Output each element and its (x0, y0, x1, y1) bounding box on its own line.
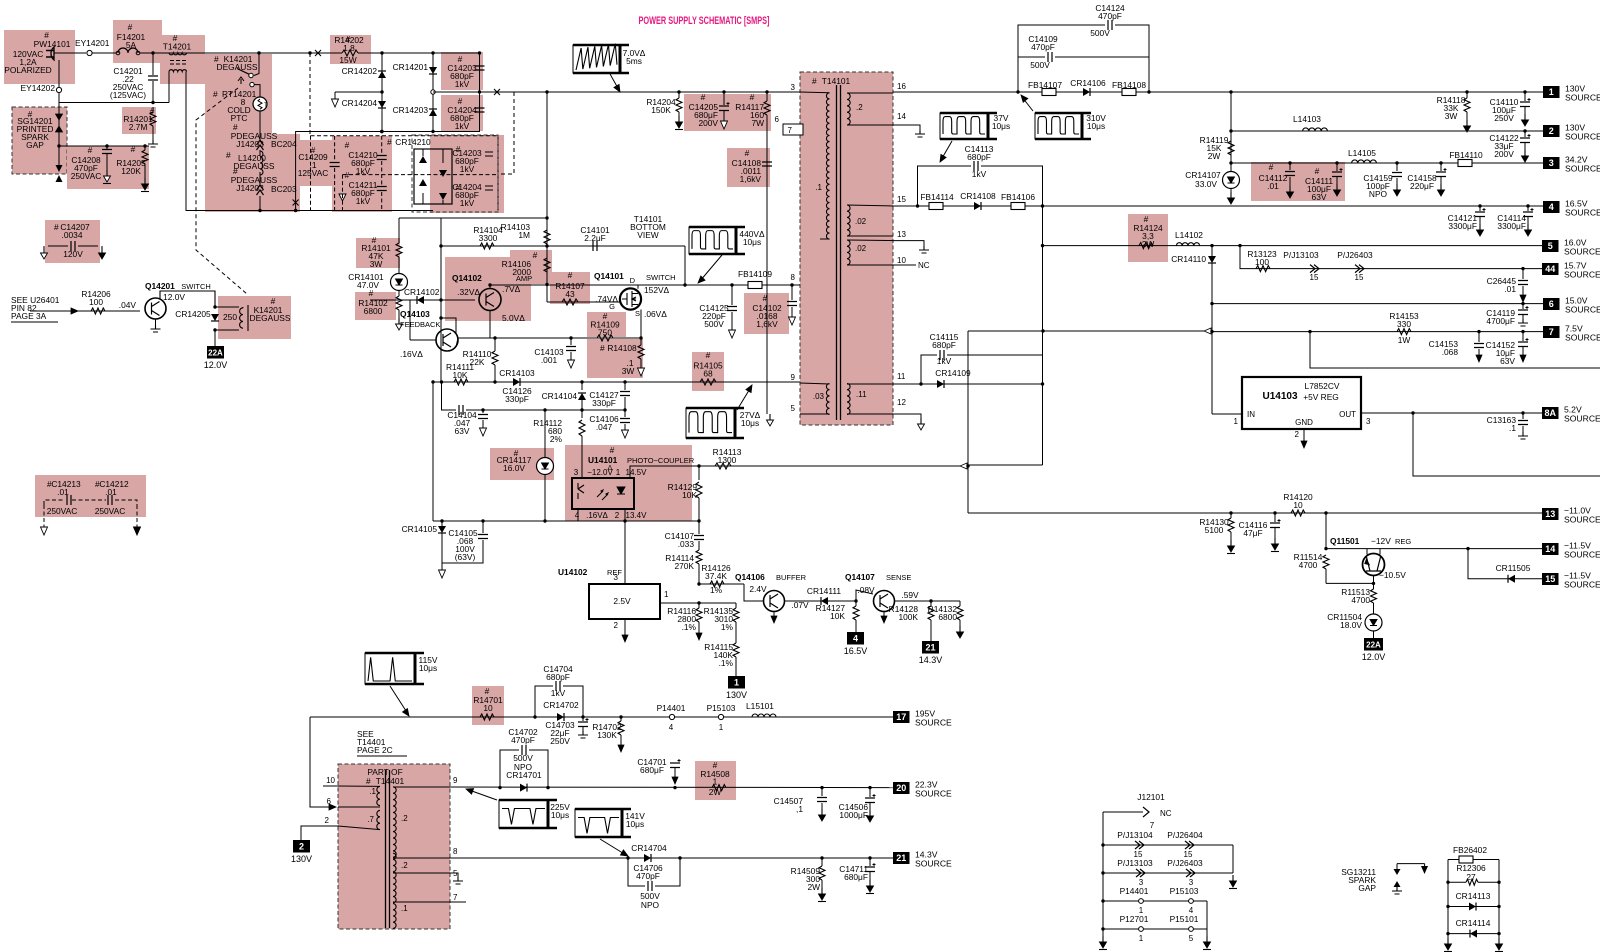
svg-text:5: 5 (1189, 934, 1194, 943)
wire plug to EY14201 (54, 52, 86, 54)
svg-text:CR14114: CR14114 (1456, 918, 1491, 928)
diode CR14106 (1083, 88, 1090, 96)
arrow 37V to loop (941, 141, 952, 160)
dashed box outer (311, 136, 499, 211)
svg-text:FB26402: FB26402 (1453, 845, 1487, 855)
terminal source 21 (893, 852, 910, 864)
capacitor C14201 (152, 53, 154, 75)
wire base Q14201 (30, 310, 140, 312)
svg-text:.04V: .04V (119, 300, 137, 310)
svg-text:#: # (745, 148, 750, 158)
svg-text:6: 6 (775, 115, 780, 124)
waveform 27V (686, 408, 735, 438)
svg-text:.068: .068 (1442, 347, 1459, 357)
svg-text:3: 3 (1549, 158, 1554, 168)
svg-text:2: 2 (325, 816, 330, 825)
wire x433 down to photocoupler line (432, 382, 434, 521)
wire Q14103 base (410, 339, 436, 341)
svg-text:.01: .01 (105, 487, 117, 497)
svg-text:44: 44 (1545, 264, 1555, 274)
terminal 4 (847, 632, 864, 645)
T14401 winding .7 left (377, 810, 380, 829)
svg-text:21: 21 (896, 853, 906, 863)
connector P/J13103 (1310, 265, 1319, 273)
svg-text:U14101: U14101 (588, 455, 618, 465)
terminal 2 (293, 840, 310, 853)
wire (529, 750, 548, 788)
wire L14200 to BC203 (259, 172, 261, 185)
svg-text:7: 7 (1150, 821, 1155, 830)
wire (918, 166, 972, 206)
arrow from 440V wavebox (700, 255, 722, 281)
rail source 2 (1231, 130, 1543, 132)
highlight degauss column upper (205, 54, 272, 134)
svg-text:SOURCE: SOURCE (1564, 414, 1600, 424)
PTC thermistor RT14201 (253, 97, 267, 111)
wire (968, 464, 1043, 466)
highlight C14108 (727, 148, 770, 187)
inductor L14102 (1176, 243, 1199, 246)
svg-text:250VAC: 250VAC (47, 506, 78, 516)
highlight R14109 (587, 312, 626, 337)
highlight T14401 (338, 764, 450, 929)
wire EY14201 to fuse (92, 52, 116, 54)
svg-text:EY14201: EY14201 (75, 38, 110, 48)
svg-text:CR14102: CR14102 (404, 287, 440, 297)
svg-text:1kV: 1kV (551, 688, 566, 698)
wire below junction (58, 146, 60, 166)
highlight Q14102 (445, 257, 531, 321)
terminal source 3 (1543, 157, 1560, 169)
ferrite bead FB14107 (1042, 89, 1056, 96)
svg-text:1: 1 (1234, 417, 1239, 426)
svg-text:.033: .033 (678, 539, 695, 549)
svg-text:10: 10 (897, 256, 906, 265)
svg-text:330: 330 (1397, 319, 1411, 329)
svg-text:Q14107: Q14107 (845, 572, 875, 582)
svg-text:63V: 63V (455, 426, 470, 436)
rail -11.5V source 14 (1326, 548, 1543, 550)
svg-text:CR14104: CR14104 (542, 391, 578, 401)
svg-text:.047: .047 (596, 422, 613, 432)
wire (254, 53, 259, 76)
svg-text:#: # (345, 140, 350, 150)
highlight T14101 (800, 72, 893, 425)
svg-text:1kV: 1kV (937, 356, 952, 366)
svg-text:4: 4 (575, 511, 580, 520)
inductor L14105 (1352, 160, 1377, 163)
svg-text:680pF: 680pF (967, 152, 991, 162)
wire (921, 355, 937, 384)
wire (393, 872, 450, 874)
svg-text:(125VAC): (125VAC) (110, 90, 146, 100)
node (380, 130, 383, 133)
wire (393, 901, 466, 903)
svg-text:#: # (213, 89, 218, 99)
svg-text:680pF: 680pF (546, 672, 570, 682)
mosfet Q14101 (620, 288, 641, 309)
rail 5.2V source 8A (1361, 412, 1543, 414)
waveform 115V (365, 653, 415, 684)
transformer T14401 core (385, 770, 387, 928)
transistor Q14102 (479, 289, 501, 311)
svg-text:T14101: T14101 (822, 76, 851, 86)
node (151, 101, 154, 104)
svg-text:250VAC: 250VAC (71, 171, 102, 181)
arrow 27V wavebox (737, 387, 751, 410)
svg-text:1,6kV: 1,6kV (740, 174, 762, 184)
svg-text:12.0V: 12.0V (163, 292, 185, 302)
svg-text:CR14103: CR14103 (499, 368, 535, 378)
waveform 225V (499, 800, 548, 828)
svg-text:8: 8 (453, 847, 458, 856)
svg-text:PAGE 3A: PAGE 3A (11, 311, 47, 321)
resistor R14126 (710, 581, 724, 587)
terminal source 8A (1542, 407, 1559, 419)
wire pin2 photocoupler (624, 509, 626, 521)
highlight R14106 (510, 250, 552, 284)
ground C14106 (622, 430, 629, 438)
wire (1397, 863, 1425, 865)
svg-text:FB14114: FB14114 (920, 192, 954, 202)
svg-text:#: # (701, 92, 706, 102)
svg-text:8: 8 (791, 273, 796, 282)
svg-text:100: 100 (1255, 257, 1269, 267)
svg-text:470pF: 470pF (1031, 42, 1055, 52)
eyelet EY14201 (87, 50, 92, 55)
node switch feed (257, 51, 260, 54)
eyelet P14401 (669, 714, 674, 719)
highlight C14203 (441, 52, 483, 90)
wire (655, 858, 680, 886)
svg-text:.16VΔ: .16VΔ (586, 511, 608, 520)
svg-text:330pF: 330pF (505, 394, 529, 404)
wire x410 (409, 300, 411, 340)
dashed link right (498, 92, 514, 174)
svg-text:BC204: BC204 (271, 139, 297, 149)
wire Q14102 collector (489, 285, 491, 289)
svg-text:17: 17 (896, 712, 906, 722)
svg-text:220μF: 220μF (1410, 181, 1434, 191)
svg-text:P15103: P15103 (1170, 886, 1199, 896)
svg-text:FB14110: FB14110 (1449, 150, 1483, 160)
svg-text:1kV: 1kV (972, 169, 987, 179)
highlight U14101 (565, 445, 692, 521)
svg-text:1%: 1% (721, 622, 734, 632)
svg-text:5100: 5100 (1205, 525, 1224, 535)
ferrite bead FB14114 (929, 203, 943, 210)
svg-text:.07V: .07V (791, 600, 809, 610)
wire (1413, 413, 1600, 476)
diode CR14701 (520, 784, 527, 792)
wire (466, 409, 625, 411)
resistor R14104 (480, 243, 494, 249)
highlight C14210 C14211 (332, 136, 392, 212)
svg-text:#: # (600, 343, 605, 353)
svg-text:10μs: 10μs (741, 418, 759, 428)
svg-text:P/J26403: P/J26403 (1337, 250, 1373, 260)
capacitor C14204 (475, 108, 485, 112)
degauss coil L14200 (260, 151, 263, 175)
svg-text:13.4V: 13.4V (626, 511, 648, 520)
waveform 141V (575, 809, 622, 837)
resistor R14120 (1291, 510, 1305, 516)
svg-text:250: 250 (223, 312, 237, 322)
svg-text:.11: .11 (856, 390, 867, 399)
wire (856, 590, 873, 601)
wire EY14202 down (58, 93, 60, 147)
svg-text:CR14701: CR14701 (506, 770, 542, 780)
svg-text:1M: 1M (518, 230, 530, 240)
svg-text:.59V: .59V (901, 590, 919, 600)
svg-text:RT14201: RT14201 (222, 89, 257, 99)
svg-text:T14401: T14401 (376, 776, 405, 786)
highlight F14201 (113, 20, 162, 63)
wire main rail vertical x547 (546, 92, 548, 302)
svg-text:#: # (763, 293, 768, 303)
svg-text:470pF: 470pF (636, 871, 660, 881)
svg-text:9: 9 (453, 776, 458, 785)
svg-text:14.5V: 14.5V (626, 468, 648, 477)
svg-text:.2: .2 (401, 814, 408, 823)
svg-text:3W: 3W (1445, 111, 1458, 121)
wire pin 6 (338, 806, 380, 808)
svg-text:SOURCE: SOURCE (1565, 93, 1600, 103)
svg-text:4700: 4700 (1299, 560, 1318, 570)
svg-text:SOURCE: SOURCE (1564, 580, 1600, 590)
spark electrodes lower (56, 165, 63, 182)
resistor R14206 (91, 308, 105, 314)
wire BC203 to bottom (259, 196, 261, 211)
wire Q14107 emitter (883, 612, 885, 617)
wire C14201 down (152, 81, 154, 103)
wire node x968 (967, 331, 969, 513)
svg-text:13: 13 (897, 230, 906, 239)
svg-text:.02: .02 (855, 244, 867, 253)
svg-text:1300: 1300 (718, 455, 737, 465)
svg-text:10μs: 10μs (551, 810, 569, 820)
svg-text:PAGE 2C: PAGE 2C (357, 745, 393, 755)
ladder verticals (1447, 860, 1449, 939)
terminal source 1 (1543, 86, 1560, 98)
highlight degauss column lower (205, 134, 300, 212)
svg-text:500V: 500V (1030, 60, 1050, 70)
svg-text:SOURCE: SOURCE (1565, 333, 1600, 343)
highlight R14124 (1128, 214, 1168, 262)
svg-text:#: # (387, 137, 392, 147)
eyelet P15103 (718, 714, 723, 719)
svg-text:CR14210: CR14210 (395, 137, 431, 147)
transformer T14101 core (836, 85, 838, 420)
svg-text:SOURCE: SOURCE (1565, 132, 1600, 142)
svg-text:Q14102: Q14102 (452, 273, 482, 283)
wire (628, 858, 645, 886)
wire to C14208 R14205 (59, 145, 149, 147)
svg-text:150K: 150K (651, 105, 671, 115)
diode CR11505 (1508, 575, 1515, 583)
node (143, 144, 146, 147)
svg-text:Q14101: Q14101 (594, 271, 624, 281)
svg-text:1W: 1W (1398, 335, 1411, 345)
wire (1115, 25, 1149, 92)
svg-text:100K: 100K (898, 612, 918, 622)
node collector (488, 283, 491, 286)
terminal 1 (728, 676, 745, 689)
rail pin 9 source 20 (450, 786, 893, 789)
svg-text:14: 14 (897, 112, 906, 121)
svg-text:2: 2 (1549, 126, 1554, 136)
svg-text:5.0VΔ: 5.0VΔ (502, 313, 525, 323)
wire (535, 686, 553, 717)
svg-text:120K: 120K (121, 166, 141, 176)
svg-text:2: 2 (614, 621, 619, 630)
svg-text:10μs: 10μs (419, 663, 437, 673)
svg-text:NPO: NPO (1369, 189, 1388, 199)
svg-text:L14103: L14103 (1293, 114, 1321, 124)
pin 11 wire (893, 383, 921, 385)
T14101 winding .03 (826, 384, 829, 415)
wire stub (335, 91, 382, 93)
svg-text:−12.0V: −12.0V (587, 468, 613, 477)
svg-text:D: D (630, 276, 636, 285)
svg-text:CR14105: CR14105 (402, 524, 438, 534)
regulator U14103 (1242, 377, 1361, 429)
dashed wire C14213 C14212 (44, 500, 106, 505)
node (294, 209, 297, 212)
svg-text:1%: 1% (710, 585, 723, 595)
svg-text:CR14704: CR14704 (631, 843, 667, 853)
wire (310, 717, 334, 807)
diode CR14203 (429, 109, 437, 116)
wire (1103, 900, 1207, 902)
transistor Q14107 (874, 591, 895, 612)
svg-text:16.5V: 16.5V (844, 646, 868, 656)
fuse F14201 (118, 48, 138, 53)
svg-text:250V: 250V (550, 736, 570, 746)
svg-text:100: 100 (89, 297, 103, 307)
svg-text:.16VΔ: .16VΔ (400, 349, 423, 359)
T14101 winding .11 (847, 384, 850, 415)
T14101 primary winding (826, 93, 829, 239)
svg-text:−10.5V: −10.5V (1379, 570, 1406, 580)
svg-text:2.7M: 2.7M (129, 122, 148, 132)
svg-text:3W: 3W (370, 259, 383, 269)
svg-text:PW14101: PW14101 (34, 39, 71, 49)
svg-text:5: 5 (791, 404, 796, 413)
wire (893, 241, 924, 246)
svg-text:680μF: 680μF (844, 872, 868, 882)
wire Q14107 collector (895, 600, 961, 602)
highlight C14204 (441, 95, 483, 131)
svg-text:22A: 22A (1366, 640, 1381, 649)
svg-text:CR14113: CR14113 (1456, 891, 1491, 901)
svg-text:130K: 130K (597, 730, 617, 740)
wire rows 3-4 right (1206, 901, 1208, 936)
diode CR14704 (644, 854, 651, 862)
wire rows 1-2 right (1232, 845, 1234, 873)
svg-text:10K: 10K (453, 370, 468, 380)
svg-text:#: # (706, 350, 711, 360)
arrow 225V wavebox (468, 790, 497, 800)
svg-text:.08V: .08V (857, 585, 875, 595)
svg-text:Q11501: Q11501 (1330, 536, 1360, 546)
svg-text:CR14108: CR14108 (960, 191, 996, 201)
svg-text:OUT: OUT (1339, 410, 1356, 419)
svg-text:P14401: P14401 (657, 703, 686, 713)
dashed link to relay (196, 88, 247, 294)
svg-text:CR14106: CR14106 (1070, 78, 1106, 88)
highlight C14213 C14212 (35, 475, 146, 517)
highlight C14209 (295, 140, 335, 186)
wire (442, 382, 457, 410)
svg-text:POWER SUPPLY SCHEMATIC [SMPS]: POWER SUPPLY SCHEMATIC [SMPS] (639, 15, 770, 27)
terminal 22A (1364, 638, 1383, 651)
svg-text:.06VΔ: .06VΔ (644, 309, 667, 319)
wire x1042 vertical (1042, 206, 1044, 465)
svg-text:FB14106: FB14106 (1001, 192, 1035, 202)
wire (1018, 25, 1105, 92)
svg-text:R14108: R14108 (607, 343, 637, 353)
diode ladder verticals (381, 53, 383, 132)
svg-text:10K: 10K (830, 611, 845, 621)
svg-text:15W: 15W (339, 55, 356, 65)
svg-text:SOURCE: SOURCE (1564, 550, 1600, 560)
photo coupler U14101 (572, 478, 634, 509)
svg-text:1: 1 (664, 590, 669, 599)
svg-text:.001: .001 (541, 355, 558, 365)
svg-text:7W: 7W (751, 118, 764, 128)
svg-text:P15101: P15101 (1170, 914, 1199, 924)
svg-text:1: 1 (1139, 934, 1144, 943)
svg-text:+5V REG: +5V REG (1303, 392, 1339, 402)
svg-text:SOURCE: SOURCE (1564, 515, 1600, 525)
rail source 3 (1231, 162, 1543, 164)
svg-text:FB14107: FB14107 (1028, 80, 1062, 90)
dashed link vertical (309, 53, 311, 134)
svg-text:#: # (568, 270, 573, 280)
arrow from wavebox (610, 74, 619, 90)
rail 7.5V source 7 (968, 330, 1212, 332)
svg-text:270K: 270K (674, 561, 694, 571)
svg-text:10: 10 (483, 703, 493, 713)
svg-text:S: S (635, 309, 640, 318)
svg-text:14.3V: 14.3V (919, 655, 943, 665)
diode CR14202 (378, 71, 386, 78)
wire source 14 branch (1466, 547, 1469, 550)
svg-text:.1: .1 (401, 904, 408, 913)
T14401 winding .1 left (377, 786, 380, 805)
diode CR14108 (974, 202, 981, 210)
svg-text:120V: 120V (63, 249, 83, 259)
rail 16.0V source 5 (1043, 245, 1544, 247)
terminal source 13 (1542, 508, 1559, 520)
svg-text:SOURCE: SOURCE (915, 718, 952, 728)
svg-text:4: 4 (853, 633, 858, 643)
svg-text:P12701: P12701 (1120, 914, 1149, 924)
pin 9 rail (433, 381, 800, 383)
svg-text:3W: 3W (622, 366, 635, 376)
svg-text:500V: 500V (1090, 28, 1110, 38)
svg-text:.1: .1 (815, 183, 822, 192)
svg-text:21: 21 (925, 642, 935, 652)
bottom return rail (186, 210, 433, 212)
wire U14102 pin2 (624, 619, 626, 634)
wire (441, 318, 456, 333)
svg-text:FB14109: FB14109 (738, 269, 772, 279)
svg-text:L7852CV: L7852CV (1305, 381, 1340, 391)
svg-text:1: 1 (719, 723, 724, 732)
wire (947, 355, 1043, 384)
